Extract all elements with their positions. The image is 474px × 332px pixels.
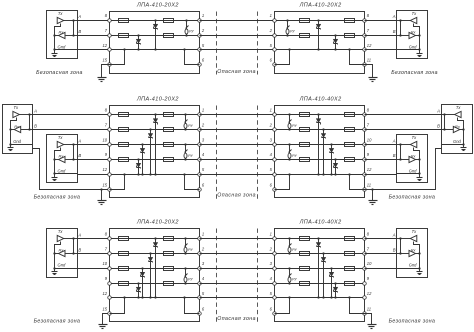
svg-text:1: 1: [270, 13, 272, 18]
protection block left row2: ЛПА-410-20Х2: [110, 106, 200, 198]
TVS diode VD2 row2 left: [148, 128, 153, 175]
wire Gnd to pin10 row3 left: [78, 268, 110, 270]
pin 3 right left row2: [198, 143, 202, 147]
wire pin 6 to ground rail right row2: [275, 175, 290, 190]
junction Gnd U1 row1: [53, 48, 55, 50]
svg-text:ЛПА-410-40Х2: ЛПА-410-40Х2: [299, 219, 342, 225]
svg-text:10: 10: [367, 261, 372, 266]
wire pin 15 to ground rail left row1: [110, 50, 125, 65]
svg-text:A: A: [392, 232, 396, 237]
resistor R2 row2 left: [119, 128, 129, 132]
pin 2 left right row1: [273, 34, 277, 38]
wire B2 row2 left: [78, 159, 110, 161]
pin 10 left left row2: [108, 143, 112, 147]
pin 11 bottom-right right row3: [363, 312, 367, 316]
TVS diode VD2 row3 right: [321, 252, 326, 298]
Gnd wire U4 row2: [397, 173, 420, 175]
resistor R8 row3 left: [164, 282, 174, 286]
pin 7 left left row3: [108, 252, 112, 256]
pin 5 left right row2: [273, 173, 277, 177]
pin 2 left right row3: [273, 252, 277, 256]
svg-text:1: 1: [270, 108, 272, 113]
resistor R3 row1 left: [164, 19, 174, 23]
wire line 1 inside right row2: [275, 114, 365, 116]
wire A row1 left: [78, 20, 110, 22]
svg-text:B: B: [393, 153, 396, 158]
resistor R4 row3 right: [345, 282, 355, 286]
pin 6 bottom-left right row1: [273, 63, 277, 67]
pin 6 bottom-right left row3: [198, 312, 202, 316]
wire line 2 hazard zone row2: [200, 129, 275, 131]
wire Rx tip to ground rail U4 row2: [416, 159, 420, 161]
svg-text:Gnd: Gnd: [58, 44, 66, 49]
ground stub U2 row1: [419, 50, 421, 54]
wire line 3 inside left row2: [110, 144, 200, 146]
transceiver box U1 row2: [3, 105, 33, 154]
transceiver box U4 row2: [397, 135, 428, 183]
wire A row1 right: [365, 20, 397, 22]
Tx driver U1 row2: [13, 105, 20, 117]
wire Tx lower terminal U4 row2: [414, 148, 420, 174]
junction A U4 row2: [399, 143, 401, 145]
pin 12 right right row2: [363, 173, 367, 177]
Gnd wire U3 row2: [442, 144, 464, 146]
TVS diode VD1 row1 right: [316, 19, 321, 50]
wire line 1 hazard zone row1: [200, 20, 275, 22]
pin 3 left right row2: [273, 143, 277, 147]
pin 3 right left row3: [198, 267, 202, 271]
hazard zone boundary dashed right row2: [257, 106, 259, 200]
pin 2 left right row2: [273, 128, 277, 132]
transceiver box U2 row1: [397, 11, 428, 59]
wire line 4 inside left row2: [110, 159, 200, 161]
wire line 3 inside right row2: [275, 144, 365, 146]
junction B U4 row2: [399, 158, 401, 160]
wire Rx tip to ground rail U1 row3: [55, 253, 59, 255]
wire Rx tip to ground rail U3 row2: [460, 129, 464, 131]
junction Rx ground U1 row3: [53, 252, 55, 254]
wire pin11 to earth row1 right: [365, 65, 373, 78]
protection block right row2: ЛПА-410-40Х2: [275, 106, 365, 198]
TVS diode VD2 row3 left: [148, 252, 153, 298]
wire Rx to B U2 row2: [66, 159, 78, 161]
svg-text:Gnd: Gnd: [409, 44, 417, 49]
earth symbol row2 right: [369, 201, 378, 205]
svg-text:Безопасная зона: Безопасная зона: [389, 318, 436, 324]
wire pin15 to earth row3 left: [103, 314, 110, 325]
pin 12 right right row3: [363, 296, 367, 300]
pin 5 right left row3: [198, 296, 202, 300]
pin 6 bottom-right left row2: [198, 188, 202, 192]
wire B2 row2 right: [365, 159, 397, 161]
junction riser right left row2: [183, 173, 185, 175]
svg-text:Gnd: Gnd: [409, 263, 417, 268]
wire pin 6 to ground rail left row1: [185, 50, 200, 65]
svg-text:B: B: [34, 123, 37, 128]
junction earth row2 right: [371, 188, 373, 190]
svg-text:10: 10: [367, 137, 372, 142]
junction earth row2 left: [100, 188, 102, 190]
wire Rx tip to ground rail U2 row1: [416, 35, 420, 37]
TVS diode VD4 row3 left: [136, 282, 141, 298]
wire Rx to B U1 row3: [66, 253, 78, 255]
Rx receiver U4 row2: [409, 154, 417, 163]
Rx receiver U3 row2: [453, 124, 461, 133]
pin 15 bottom-left left row2: [108, 188, 112, 192]
wire B1 row2 left: [33, 129, 110, 131]
arrester РУ1 row2 left: [184, 113, 193, 130]
arrester РУ1 row3 left: [184, 237, 193, 254]
TVS diode VD4 row2 left: [136, 158, 141, 175]
pin 8 right right row2: [363, 113, 367, 117]
resistor R8 row2 left: [164, 158, 174, 162]
wire line 2 inside right row2: [275, 129, 365, 131]
junction riser left left row3: [123, 296, 125, 298]
pin 9 right right row3: [363, 282, 367, 286]
resistor R8 row3 right: [300, 282, 310, 286]
svg-text:10: 10: [102, 261, 107, 266]
wire Rx to B U3 row2: [442, 129, 454, 131]
wire Rx to B U2 row3: [397, 253, 409, 255]
wire line 2 inside left row1: [110, 35, 200, 37]
junction B U1 row2: [28, 128, 30, 130]
pin 5 left right row3: [273, 296, 277, 300]
pin 2 right left row2: [198, 128, 202, 132]
ground stub U1 row3: [54, 269, 56, 272]
Gnd wire U1 row3: [55, 268, 78, 270]
earth symbol row2 left: [98, 201, 107, 205]
junction riser left right row3: [288, 296, 290, 298]
hazard zone boundary dashed left row1: [216, 12, 218, 75]
wire line 1 inside left row1: [110, 20, 200, 22]
arrester РУ2 row2 right: [288, 143, 297, 160]
svg-text:Безопасная зона: Безопасная зона: [34, 318, 81, 324]
svg-text:РУ: РУ: [292, 248, 297, 252]
pin 11 bottom-right right row1: [363, 63, 367, 67]
resistor R3 row1 right: [300, 19, 310, 23]
pin 5 right left row1: [198, 48, 202, 52]
wire A to B loop U1 row1: [73, 21, 75, 36]
ground stub U3 row2: [463, 145, 465, 148]
svg-text:1: 1: [270, 231, 272, 236]
svg-text:B: B: [78, 153, 81, 158]
Tx driver U1 row1: [57, 11, 64, 24]
pin 7 right right row1: [363, 34, 367, 38]
wire Tx output to A U1 row1: [64, 20, 78, 22]
wire pin 11 to ground rail right row2: [350, 175, 365, 190]
svg-text:ЛПА-410-40Х2: ЛПА-410-40Х2: [299, 97, 342, 103]
pin 8 left left row1: [108, 19, 112, 23]
svg-text:11: 11: [367, 306, 371, 311]
svg-text:12: 12: [367, 291, 372, 296]
wire line 2 inside left row2: [110, 129, 200, 131]
wire line 2 inside right row1: [275, 35, 365, 37]
wire Tx lower terminal U2 row2: [55, 148, 61, 174]
wire Tx output to A U1 row3: [64, 238, 78, 240]
pin 10 left left row3: [108, 267, 112, 271]
svg-text:B: B: [78, 29, 81, 34]
wire line 4 inside left row3: [110, 283, 200, 285]
wire line 1 inside left row2: [110, 114, 200, 116]
svg-text:Безопасная зона: Безопасная зона: [34, 195, 81, 201]
ground symbol U3 row2: [461, 148, 467, 151]
resistor R5 row3 right: [300, 237, 310, 241]
wire to earth row2 left: [101, 190, 103, 201]
svg-text:Безопасная зона: Безопасная зона: [36, 70, 83, 76]
earth symbol row3 left: [99, 325, 108, 329]
resistor R4 row1 left: [164, 34, 174, 38]
wire line 4 hazard zone row2: [200, 159, 275, 161]
resistor R6 row3 left: [164, 252, 174, 256]
pin 6 bottom-left right row3: [273, 312, 277, 316]
Gnd wire U2 row1: [397, 49, 420, 51]
pin 12 left left row2: [108, 173, 112, 177]
resistor R2 row1 right: [345, 34, 355, 38]
wire Tx output to A U4 row2: [397, 144, 411, 146]
wire line 3 inside left row1: [110, 49, 200, 51]
pin 8 left left row3: [108, 237, 112, 241]
junction Gnd U1 row3: [53, 267, 55, 269]
junction B U3 row2: [443, 128, 445, 130]
pin 5 left right row1: [273, 48, 277, 52]
wire pin 11 to ground rail right row3: [350, 298, 365, 314]
wire line 4 inside right row2: [275, 159, 365, 161]
wire pin 6 to ground rail right row1: [275, 50, 290, 65]
pin 4 right left row2: [198, 158, 202, 162]
TVS diode VD2 row1 left: [136, 34, 141, 50]
svg-text:Безопасная зона: Безопасная зона: [389, 195, 436, 201]
wire line 2 inside right row3: [275, 253, 365, 255]
junction riser left right row2: [288, 173, 290, 175]
ground stub U1 row2: [10, 145, 12, 148]
resistor R3 row2 right: [345, 143, 355, 147]
arrester РУ row1 right: [286, 19, 295, 36]
wire line 3 inside left row3: [110, 268, 200, 270]
transceiver box U2 row3: [397, 229, 428, 278]
wire line 3 inside right row1: [275, 49, 365, 51]
Gnd wire U1 row2: [11, 144, 33, 146]
arrester РУ2 row2 left: [184, 143, 193, 160]
protection block right row3: ЛПА-410-40Х2: [275, 229, 365, 322]
wire pin15 to earth row1 left: [102, 65, 110, 78]
wire pin 15 to ground rail left row2: [110, 175, 125, 190]
wire pin 15 to ground rail left row3: [110, 298, 125, 314]
svg-text:A: A: [392, 14, 396, 19]
resistor R4 row1 right: [300, 34, 310, 38]
wire line 5 inside left row2: [110, 174, 200, 176]
earth symbol row3 right: [368, 325, 377, 329]
resistor R3 row2 left: [119, 143, 129, 147]
junction Gnd U3 row2: [462, 143, 464, 145]
transceiver box U1 row3: [47, 229, 78, 278]
svg-text:12: 12: [102, 43, 107, 48]
pin 6 bottom-right left row1: [198, 63, 202, 67]
pin 5 right left row2: [198, 173, 202, 177]
wire A to B loop U3 row2: [444, 115, 446, 130]
pin 7 left left row1: [108, 34, 112, 38]
junction Rx ground U2 row2: [53, 158, 55, 160]
junction Rx ground U2 row1: [418, 34, 420, 36]
resistor R4 row3 left: [119, 282, 129, 286]
svg-text:B: B: [393, 29, 396, 34]
svg-text:1: 1: [202, 108, 204, 113]
earth symbol row1 left: [98, 78, 107, 82]
wire Rx tip to ground rail U1 row2: [11, 129, 15, 131]
wire line 2 inside left row3: [110, 253, 200, 255]
junction A U2 row2: [72, 143, 74, 145]
resistor R4 row2 right: [345, 158, 355, 162]
wire Rx tip to ground rail U2 row2: [55, 159, 59, 161]
pin 9 left left row2: [108, 158, 112, 162]
junction Rx ground U1 row1: [53, 34, 55, 36]
wire A2 row2 right: [365, 144, 397, 146]
pin 12 left left row3: [108, 296, 112, 300]
Rx receiver U2 row3: [409, 248, 417, 257]
svg-text:ЛПА-410-20Х2: ЛПА-410-20Х2: [136, 219, 179, 225]
arrester РУ2 row3 left: [184, 267, 193, 284]
resistor R2 row3 right: [345, 252, 355, 256]
svg-text:11: 11: [367, 58, 371, 63]
TVS diode VD1 row2 right: [316, 113, 321, 175]
wire Rx to B U4 row2: [397, 159, 409, 161]
Rx receiver U1 row2: [14, 124, 21, 133]
junction Gnd U2 row1: [418, 48, 420, 50]
wire Gnd U4 to pin12 row2 right: [365, 174, 397, 176]
resistor R2 row3 left: [119, 252, 129, 256]
pin 1 right left row3: [198, 237, 202, 241]
TVS diode VD1 row2 left: [153, 113, 158, 175]
wire Tx output to A U2 row2: [64, 144, 78, 146]
wire B row3 right: [365, 253, 397, 255]
protection block left row3: ЛПА-410-20Х2: [110, 229, 200, 322]
svg-text:1: 1: [202, 13, 204, 18]
junction A U2 row3: [399, 237, 401, 239]
ground stub U2 row2: [54, 174, 56, 178]
junction B U1 row1: [72, 34, 74, 36]
resistor R1 row1 right: [345, 19, 355, 23]
hazard zone boundary dashed right row3: [257, 229, 259, 323]
junction Rx ground U4 row2: [418, 158, 420, 160]
wire B row3 left: [78, 253, 110, 255]
resistor R2 row2 right: [345, 128, 355, 132]
resistor R6 row2 right: [300, 128, 310, 132]
wire Tx output to A U2 row1: [397, 20, 411, 22]
svg-text:15: 15: [102, 58, 107, 63]
Rx receiver U1 row3: [59, 248, 66, 257]
svg-text:РУ: РУ: [188, 124, 193, 128]
pin 4 right left row3: [198, 282, 202, 286]
resistor R3 row3 left: [119, 267, 129, 271]
junction A U3 row2: [443, 113, 445, 115]
svg-text:A: A: [392, 138, 396, 143]
svg-text:РУ: РУ: [188, 154, 193, 158]
pin 7 right right row3: [363, 252, 367, 256]
junction Rx ground U3 row2: [462, 128, 464, 130]
junction A U1 row2: [28, 113, 30, 115]
svg-text:12: 12: [367, 167, 372, 172]
earth symbol row1 right: [369, 78, 378, 82]
wire Tx output to A U2 row3: [397, 238, 411, 240]
resistor R2 row1 left: [119, 34, 129, 38]
resistor R1 row2 left: [119, 113, 129, 117]
pin 9 left left row3: [108, 282, 112, 286]
svg-text:РУ: РУ: [188, 248, 193, 252]
wire line 5 inside right row2: [275, 174, 365, 176]
resistor R5 row3 left: [164, 237, 174, 241]
Gnd wire U2 row3: [397, 268, 420, 270]
svg-text:РУ: РУ: [292, 124, 297, 128]
protection block right row1: ЛПА-410-20Х2: [275, 12, 365, 74]
wire pin 11 to ground rail right row1: [350, 50, 365, 65]
junction Gnd U4 row2: [418, 172, 420, 174]
resistor R1 row1 left: [119, 19, 129, 23]
svg-text:Gnd: Gnd: [58, 263, 66, 268]
svg-text:Gnd: Gnd: [13, 139, 21, 144]
wire line 3 hazard zone row2: [200, 144, 275, 146]
transceiver box U3 row2: [442, 105, 473, 154]
junction Gnd U2 row3: [418, 267, 420, 269]
Rx receiver U1 row1: [59, 29, 66, 38]
resistor R7 row3 right: [300, 267, 310, 271]
pin 6 bottom-left right row2: [273, 188, 277, 192]
wire A to B loop U4 row2: [400, 145, 402, 160]
junction Rx ground U1 row2: [9, 128, 11, 130]
wire B row1 right: [365, 35, 397, 37]
svg-text:B: B: [393, 247, 396, 252]
wire Rx to B U2 row1: [397, 35, 409, 37]
wire Rx tip to ground rail U1 row1: [55, 35, 59, 37]
junction riser right left row3: [183, 296, 185, 298]
wire line 1 hazard zone row2: [200, 114, 275, 116]
Rx receiver U2 row1: [409, 29, 417, 38]
arrester РУ row1 left: [185, 19, 194, 36]
wire line 1 hazard zone row3: [200, 238, 275, 240]
wire A to B loop U1 row2: [29, 115, 31, 130]
Tx driver U2 row1: [410, 11, 417, 24]
pin 1 left right row3: [273, 237, 277, 241]
pin 2 right left row3: [198, 252, 202, 256]
wire Rx to B U1 row1: [66, 35, 78, 37]
wire A to B loop U2 row3: [400, 239, 402, 254]
svg-text:12: 12: [102, 291, 107, 296]
wire A row3 left: [78, 238, 110, 240]
Tx driver U3 row2: [455, 105, 462, 117]
pin 11 bottom-right right row2: [363, 188, 367, 192]
pin 12 left left row1: [108, 48, 112, 52]
wire pin11 to earth row3 right: [365, 314, 372, 325]
wire to earth row2 right: [372, 190, 374, 201]
svg-text:B: B: [437, 123, 440, 128]
TVS diode VD2 row1 right: [333, 34, 338, 50]
svg-text:15: 15: [102, 183, 107, 188]
junction riser right right row3: [348, 296, 350, 298]
wire line 1 inside right row1: [275, 20, 365, 22]
wire Gnd U2 to pin12 row2 left: [78, 174, 110, 176]
resistor R3 row3 right: [345, 267, 355, 271]
pin 4 left right row2: [273, 158, 277, 162]
pin 8 right right row3: [363, 237, 367, 241]
pin 2 right left row1: [198, 34, 202, 38]
ground symbol U2 row3: [417, 272, 423, 275]
wire line 3 inside right row3: [275, 268, 365, 270]
resistor R8 row2 right: [300, 158, 310, 162]
junction riser right right row2: [348, 173, 350, 175]
pin 1 right left row1: [198, 19, 202, 23]
wire A2 row2 left: [78, 144, 110, 146]
Tx driver U4 row2: [410, 135, 417, 148]
svg-text:РУ: РУ: [189, 30, 194, 34]
TVS diode VD4 row2 right: [333, 158, 338, 175]
